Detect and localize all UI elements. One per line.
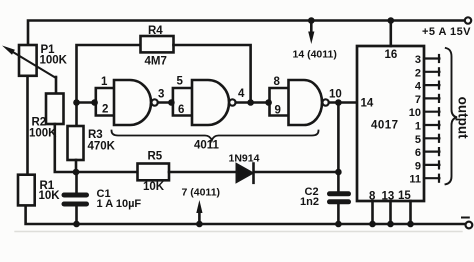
svg-text:4017: 4017 bbox=[371, 120, 399, 132]
potentiometer arrow P1 wiper bbox=[10, 50, 56, 78]
svg-text:R3: R3 bbox=[88, 129, 103, 141]
svg-text:5: 5 bbox=[177, 76, 184, 88]
svg-text:7 (4011): 7 (4011) bbox=[182, 187, 221, 199]
wire top supply rail bbox=[28, 21, 465, 46]
capacitor C2 bbox=[330, 194, 349, 202]
svg-text:100K: 100K bbox=[29, 128, 57, 140]
nand gate U1b bubble bbox=[229, 99, 235, 105]
label P1 100K bbox=[40, 44, 68, 67]
svg-text:4: 4 bbox=[415, 81, 422, 93]
wire pin13 to rail bbox=[389, 201, 392, 224]
svg-text:4: 4 bbox=[238, 88, 245, 100]
label R3 470K bbox=[88, 129, 116, 153]
svg-text:6: 6 bbox=[178, 104, 184, 116]
label 16 bbox=[385, 49, 398, 61]
label C2 1n2 bbox=[300, 186, 319, 208]
svg-text:13: 13 bbox=[382, 191, 395, 203]
output pin lines 3 2 4 7 10 1 5 6 9 11 bbox=[424, 55, 439, 182]
wire gate1 out to gate2 in bbox=[158, 101, 173, 104]
svg-text:4011: 4011 bbox=[194, 140, 220, 152]
label output pin numbers bbox=[409, 54, 422, 186]
label output rotated bbox=[455, 97, 470, 139]
brace output bbox=[446, 48, 458, 184]
svg-text:R5: R5 bbox=[148, 151, 163, 163]
svg-text:3: 3 bbox=[415, 54, 421, 66]
nand gate U1b body bbox=[192, 80, 229, 125]
wire R2 bottom to timing node bbox=[55, 124, 138, 172]
wire C2 to bottom rail bbox=[337, 204, 340, 224]
terminal +5 supply bbox=[465, 17, 471, 23]
wire pin16 to rail bbox=[389, 21, 392, 47]
label R1 10K bbox=[39, 180, 61, 202]
wire wiper to R2 bbox=[55, 77, 58, 94]
wire R5 to diode bbox=[169, 171, 237, 174]
nand gate U1a input bracket bbox=[96, 88, 114, 116]
nand gate U1c bubble bbox=[322, 99, 328, 105]
nand gate U1b input bracket bbox=[173, 88, 192, 116]
wire bottom rail bbox=[26, 206, 466, 224]
label R4 4M7 bbox=[145, 25, 167, 68]
capacitor C1 bbox=[64, 195, 87, 204]
resistor R1 bbox=[18, 175, 35, 206]
svg-text:3: 3 bbox=[158, 89, 164, 101]
nand gate U1c input bracket bbox=[270, 88, 289, 116]
minus mark bbox=[462, 217, 469, 219]
label 14 bbox=[361, 98, 374, 110]
brace 4011 under gates bbox=[112, 131, 319, 141]
svg-text:470K: 470K bbox=[88, 141, 116, 153]
svg-text:R4: R4 bbox=[148, 25, 163, 37]
wire pin8 to rail bbox=[371, 201, 374, 224]
svg-text:100K: 100K bbox=[40, 55, 68, 67]
wire C1 leads bbox=[75, 172, 78, 193]
svg-text:9: 9 bbox=[415, 160, 421, 172]
nand gate U1c body bbox=[289, 80, 323, 125]
resistor R2 bbox=[46, 94, 64, 125]
svg-text:10K: 10K bbox=[39, 190, 61, 202]
svg-text:+5 A 15V: +5 A 15V bbox=[422, 26, 471, 38]
wire gate2 out to gate3 in bbox=[236, 101, 270, 104]
svg-text:4M7: 4M7 bbox=[145, 56, 167, 68]
label R2 100K bbox=[29, 117, 57, 140]
label pin8 pin9 pin10 bbox=[274, 76, 342, 117]
label 7 (4011) bbox=[182, 187, 221, 199]
label 14 (4011) bbox=[293, 49, 337, 61]
svg-text:1: 1 bbox=[101, 76, 108, 88]
wire R3 bottom to C1 node bbox=[75, 160, 78, 172]
svg-text:5: 5 bbox=[415, 134, 421, 146]
svg-text:16: 16 bbox=[385, 49, 398, 61]
wire pin15 to rail bbox=[409, 201, 412, 224]
svg-text:2: 2 bbox=[102, 104, 108, 116]
svg-text:14: 14 bbox=[361, 98, 374, 110]
wire gate3 out to 4017 pin14 bbox=[329, 101, 357, 104]
svg-text:10: 10 bbox=[409, 107, 421, 119]
svg-text:output: output bbox=[455, 97, 470, 139]
label 4017 bbox=[371, 120, 399, 132]
nand gate U1a bubble bbox=[151, 99, 157, 105]
svg-text:11: 11 bbox=[409, 174, 421, 186]
diode D1 1N914 bbox=[237, 165, 252, 182]
label pin1 pin2 pin3 bbox=[101, 76, 164, 116]
svg-text:1 A 10µF: 1 A 10µF bbox=[97, 198, 142, 210]
scan artifact faint line bbox=[15, 231, 462, 233]
IC U2 4017 box bbox=[357, 46, 424, 201]
label 8 13 15 bbox=[369, 190, 411, 203]
arrow 7(4011) ground pin bbox=[198, 212, 201, 224]
label 4011 bbox=[194, 140, 220, 152]
svg-text:14 (4011): 14 (4011) bbox=[293, 49, 337, 61]
arrow 14(4011) supply pin bbox=[310, 21, 313, 34]
svg-text:7: 7 bbox=[415, 94, 421, 106]
wire gate3 out down to diode and C2 bbox=[337, 103, 340, 192]
resistor R3 bbox=[68, 126, 84, 160]
svg-text:10K: 10K bbox=[143, 181, 165, 193]
label R5 10K bbox=[143, 151, 165, 194]
nand gate U1a body bbox=[114, 80, 151, 125]
label +5 A 15V bbox=[422, 26, 471, 38]
resistor R5 bbox=[138, 164, 170, 181]
terminal 0V negative bbox=[466, 222, 473, 229]
wire left column P1 to R1 bbox=[26, 76, 29, 175]
svg-text:1n2: 1n2 bbox=[300, 196, 319, 208]
svg-text:6: 6 bbox=[415, 147, 421, 159]
wire R4 right feedback to pin4 node bbox=[174, 45, 251, 103]
wire diode to C2 node bbox=[255, 171, 339, 174]
potentiometer P1 bbox=[19, 45, 37, 76]
svg-text:2: 2 bbox=[415, 67, 421, 79]
svg-text:1: 1 bbox=[415, 121, 421, 133]
label 1N914 bbox=[229, 153, 260, 165]
wire R4 left leg down to node bbox=[77, 45, 141, 126]
svg-text:1N914: 1N914 bbox=[229, 153, 260, 165]
label C1 1A10uF bbox=[97, 188, 142, 210]
label pin5 pin6 pin4 bbox=[177, 76, 246, 117]
resistor R4 bbox=[141, 36, 174, 52]
svg-text:9: 9 bbox=[275, 105, 281, 117]
svg-text:10: 10 bbox=[329, 89, 342, 101]
svg-text:8: 8 bbox=[274, 76, 281, 88]
wire node to gate1 input bbox=[77, 101, 96, 104]
